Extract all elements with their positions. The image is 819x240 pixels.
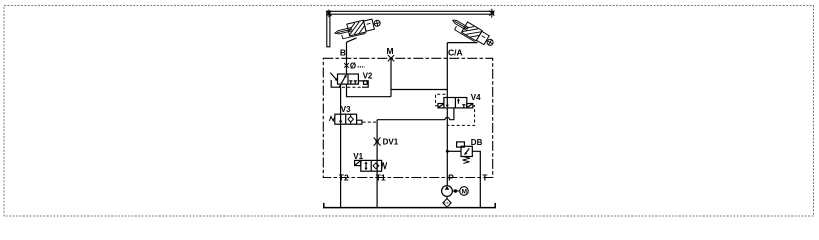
valve V2 — [330, 73, 368, 88]
pilot wire V3 to DV1 line (dashed) — [363, 121, 378, 123]
mast — [327, 11, 330, 47]
pump — [442, 186, 453, 197]
wire T2 line — [340, 124, 342, 207]
cylinder Z2 (right, tilted) — [449, 15, 496, 50]
motor M — [460, 187, 469, 196]
wire B port down — [346, 42, 348, 74]
svg-text:C/A: C/A — [448, 47, 463, 57]
valve V3 — [329, 114, 362, 124]
relief valve DB — [457, 142, 473, 164]
wire cylinder Z2 to C/A — [447, 42, 477, 44]
valve V1 — [355, 160, 387, 171]
svg-text:T: T — [482, 172, 488, 182]
svg-text:DB: DB — [471, 138, 483, 147]
pilot wire V4 left (dashed) — [436, 94, 448, 105]
wire T1 line — [376, 171, 378, 207]
wire P column — [446, 108, 448, 186]
wire M bottom to V2 — [347, 84, 392, 97]
tank — [324, 203, 495, 208]
svg-text:B: B — [340, 47, 346, 57]
wire M to C/A column — [391, 89, 447, 91]
wire V2 to V3 — [340, 84, 342, 114]
orifice leader dots — [358, 66, 365, 68]
throttle DV1 — [374, 138, 381, 146]
wire DV1 vertical — [376, 120, 378, 161]
pivot X right — [489, 9, 494, 18]
port M plug X — [388, 55, 394, 61]
wire M line down — [390, 58, 392, 97]
svg-text:M: M — [387, 46, 394, 56]
orifice — [344, 63, 349, 68]
svg-text:T2: T2 — [339, 172, 349, 182]
svg-text:M: M — [462, 188, 467, 195]
wire cylinder Z1 to B — [347, 38, 357, 42]
cylinder Z1 (left, tilted) — [333, 17, 382, 41]
svg-text:V3: V3 — [341, 105, 351, 114]
svg-text:V4: V4 — [471, 93, 481, 102]
svg-text:V2: V2 — [363, 71, 373, 80]
manifold boundary (dash-dot) — [323, 58, 492, 177]
shaft — [452, 190, 459, 192]
filter — [443, 199, 451, 208]
wire P to DB — [447, 150, 461, 152]
svg-text:V1: V1 — [353, 152, 363, 161]
pilot wire V4 right (dashed) — [447, 106, 474, 126]
beam — [327, 11, 494, 14]
wire C/A port down — [446, 43, 448, 98]
suction line — [446, 196, 448, 198]
svg-text:DV1: DV1 — [383, 137, 399, 146]
wire DB to T — [472, 151, 480, 207]
svg-text:T1: T1 — [376, 172, 386, 182]
junction P to DB — [446, 150, 449, 153]
pivot X left — [326, 10, 331, 18]
svg-text:P: P — [448, 172, 454, 182]
svg-text:Ø: Ø — [350, 62, 356, 71]
wire V4 second port to DV1 line with hop — [450, 108, 454, 120]
valve V4 — [438, 98, 473, 108]
